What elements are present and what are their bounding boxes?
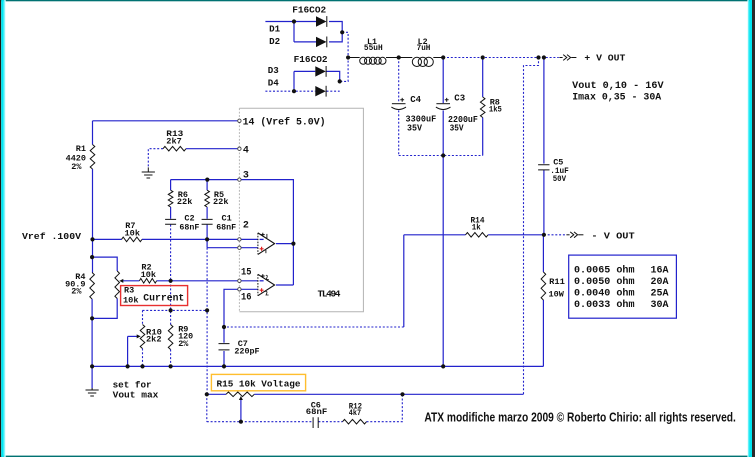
svg-text:68nF: 68nF [179,223,199,233]
svg-text:7uH: 7uH [417,44,431,53]
ground near R13 [147,167,149,172]
wire R15 left to C6 rail [206,394,208,421]
wire R14 drop to C7 node [403,235,405,327]
svg-text:C3: C3 [454,94,465,104]
wire R8 bottom lead [482,118,484,156]
svg-text:22k: 22k [213,197,229,207]
wire rectifier output bus [340,32,348,81]
diode D4 [315,86,326,96]
wire R6 to C2 [170,207,172,219]
wire D3 anode row [294,70,315,72]
svg-text:68nF: 68nF [306,407,328,417]
svg-text:10k: 10k [125,228,141,238]
wire D3-D4 anode bus [293,71,295,91]
resistor R12 [343,419,367,424]
op-amp error amp 1 [258,233,275,255]
wire pin15 stub [240,280,258,282]
resistor R7 [122,237,143,242]
wire C6 to R12 [318,421,342,423]
svg-text:C4: C4 [410,95,421,105]
svg-text:- V OUT: - V OUT [591,231,635,242]
resistor R2 [139,279,156,284]
wire -V output lead [544,234,566,236]
diode D3 [315,66,326,76]
wire R5 to C1 [206,207,208,219]
wire R11 bottom lead [542,300,544,366]
wire R8 top lead [482,58,484,98]
svg-text:35V: 35V [450,124,465,134]
capacitor C7 [219,344,230,350]
svg-text:2%: 2% [178,339,189,349]
junction dots [292,19,296,23]
wire D1 cathode to junction [329,22,342,33]
potentiometer R15 [226,392,254,397]
capacitor C3 [436,103,450,105]
diode D2 [316,37,327,47]
svg-text:30A: 30A [651,300,669,311]
svg-text:220pF: 220pF [234,347,259,357]
wire R2 to pin15 [157,280,238,282]
wire C6 rail left [207,421,313,423]
svg-text:1k5: 1k5 [489,104,502,114]
wire R10 top lead [142,310,144,324]
wire pin4 to R13 [186,148,237,150]
svg-text:+ V OUT: + V OUT [584,52,625,63]
wire L2 right lead [433,57,443,59]
resistor R8 [480,97,485,118]
wire pin3 row [171,179,238,181]
svg-text:R1: R1 [76,144,86,154]
wire ground stub [91,366,93,388]
wire D1-D2 anode bus [293,22,295,42]
svg-text:55uH: 55uH [364,44,383,53]
svg-text:2%: 2% [71,287,82,297]
svg-text:16: 16 [241,293,252,304]
wire to R9 top [170,281,172,325]
svg-text:ATX modifiche marzo 2009 © Rob: ATX modifiche marzo 2009 © Roberto Chiri… [424,410,736,424]
wire R10 wiper [128,335,139,337]
pin 2 [238,238,241,241]
wire pin16 stub [240,288,258,290]
wire C4 bottom lead [398,110,400,155]
svg-text:35V: 35V [407,124,423,134]
svg-text:0.0065 ohm: 0.0065 ohm [574,264,635,276]
wire Vref to R7 [91,238,122,240]
capacitor C1 [202,219,213,224]
svg-text:14 (Vref 5.0V): 14 (Vref 5.0V) [243,116,326,128]
wire D1 anode row [265,21,316,23]
svg-text:D1: D1 [269,25,281,35]
red highlight box R3 Current [121,286,188,306]
wire feedback node drop [206,248,208,395]
svg-text:0.0033 ohm: 0.0033 ohm [574,299,635,311]
resistor R6 [168,190,173,207]
wire R1 top lead [92,121,94,145]
wire L1-L2 link [386,57,412,59]
wire C1 down [206,225,208,240]
svg-text:4: 4 [243,146,249,157]
wire C7 node link [224,326,404,328]
wire pin14 Vref [93,120,238,122]
wire pin1 row [207,247,237,249]
+V OUT port arrow [559,57,562,59]
pin 14 [238,119,241,122]
wire C5 bottom lead [543,170,545,235]
svg-text:Vout max: Vout max [113,390,159,401]
wire pin16 to C7 [224,289,239,327]
pin 3 [238,178,241,181]
wire pin3 to amp outputs [240,180,293,285]
wire C3 top lead [442,58,444,104]
svg-text:Vout 0,10 - 16V: Vout 0,10 - 16V [572,81,663,92]
wire R6 top lead [170,180,172,191]
inductor L2 [412,57,421,66]
wire R1 to R4 [92,169,94,273]
svg-text:20A: 20A [651,277,669,288]
svg-text:D4: D4 [268,78,280,88]
svg-text:25A: 25A [651,289,669,300]
svg-text:3: 3 [243,171,249,182]
wire R5 top lead [206,180,208,191]
inductor L1 [360,57,367,64]
svg-text:D3: D3 [268,66,279,76]
potentiometer R3 [115,271,120,299]
wire R7 to pin2 [142,238,237,240]
svg-text:50V: 50V [553,174,567,184]
wire R15 left lead [207,393,226,395]
wire R14 left lead [404,234,466,236]
svg-text:16A: 16A [651,265,669,276]
svg-text:4k7: 4k7 [349,408,361,418]
svg-text:0.0050 ohm: 0.0050 ohm [574,276,635,288]
svg-text:1k: 1k [472,222,481,232]
wire R14 to -V junction [488,234,544,236]
wire pin1 stub [240,247,258,249]
svg-text:2%: 2% [71,162,82,172]
wire filter cap ground rail [399,155,483,157]
resistor R4 [90,273,95,300]
svg-text:R15 10k Voltage: R15 10k Voltage [217,378,301,389]
wire +V output rail [443,57,559,59]
wire ground rail [92,365,543,367]
capacitor C6 [313,417,318,428]
op-amp error amp 2 [258,274,275,295]
wire C7 top lead [223,327,225,343]
capacitor C4 [392,103,406,105]
svg-text:15: 15 [241,268,252,279]
wire C3 bottom lead [442,110,444,155]
capacitor C5 [538,165,549,170]
pin 1 [238,246,241,249]
svg-text:2k7: 2k7 [166,137,182,147]
svg-text:0.0040 ohm: 0.0040 ohm [574,288,635,300]
wire R12 to R15 right [367,394,403,421]
wire D4 cathode [327,90,340,92]
svg-text:Vref .100V: Vref .100V [22,231,81,242]
wire R11 top lead [542,235,544,272]
wire R15 right lead [254,393,402,395]
resistor R9 [168,325,173,350]
wire +V feedback drop to R15 [524,58,539,395]
wire R3 bottom [92,299,117,319]
svg-text:10W: 10W [549,290,565,300]
svg-text:22k: 22k [177,197,193,207]
wire D3 cathode to junction [327,71,340,81]
wire R15 row to feedback corner [403,393,524,395]
wire amp2 output [276,284,293,286]
blue shunt table box [569,255,677,318]
-V OUT port arrow [566,234,569,236]
wire R10 bottom lead [142,349,144,367]
wire C7 bottom lead [223,351,225,366]
svg-text:R11: R11 [549,277,565,287]
svg-text:Imax 0,35 - 30A: Imax 0,35 - 30A [572,93,661,104]
diode D1 [316,16,327,26]
wire C2 down [170,225,172,281]
wire D4 anode row [265,90,315,92]
wire R13 to ground [148,149,163,168]
resistor R5 [205,190,210,207]
wire R3 wiper to R2 [123,280,139,282]
svg-text:2k2: 2k2 [146,335,162,345]
svg-text:68nF: 68nF [216,223,236,233]
wire R3 top [92,257,117,271]
wire C4 top lead [398,58,400,104]
svg-text:D2: D2 [269,37,280,47]
capacitor C2 [165,219,176,224]
pin 4 [238,147,241,150]
wire C3 ground drop [442,156,444,367]
resistor R14 [466,233,489,238]
potentiometer R10 [140,325,145,349]
pin 15 [238,279,241,282]
wire C1 node to pin1 row [206,239,208,247]
wire trimmer top rail [143,309,208,311]
resistor R1 [90,145,95,170]
wire C5 top lead [543,58,545,164]
pin 16 [238,288,241,291]
wire R10 wiper to rail [127,336,129,366]
wire L1 left lead [348,57,360,59]
svg-text:F16CO2: F16CO2 [294,54,328,65]
wire R4 bottom to ground rail [91,299,93,366]
svg-text:TL494: TL494 [318,289,341,300]
svg-text:R3: R3 [124,285,134,295]
wire D2 anode row [294,41,316,43]
svg-text:Current: Current [143,294,184,305]
svg-text:2: 2 [243,220,249,231]
wire R9 bottom lead [170,350,172,367]
ground at bottom rail [91,388,93,390]
wire amp1 output [276,243,293,245]
wire D2 cathode up [329,32,342,42]
IC U1 TL494 body [239,108,363,311]
resistor R11 [541,272,546,300]
wire R15 wiper drop [240,398,242,422]
svg-text:10k: 10k [123,296,139,306]
yellow highlight box R15 Voltage [211,374,305,390]
svg-text:10k: 10k [141,270,157,280]
resistor R13 [163,146,186,151]
svg-text:F16CO2: F16CO2 [292,5,326,16]
wire pin2 stub [240,238,258,240]
